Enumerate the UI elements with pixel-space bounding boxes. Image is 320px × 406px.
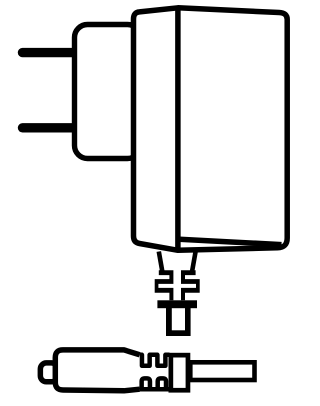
strain relief right serpentine rib [181, 270, 200, 300]
cable output barrel [190, 362, 254, 380]
strain relief left serpentine rib [155, 270, 174, 300]
DC tip of adapter (outer) [166, 304, 191, 336]
DC tip of adapter (inner white) [172, 308, 185, 330]
front face bottom edge line [180, 239, 282, 244]
plug face (AC plug head) [75, 25, 141, 159]
cable plug tip (left barrel pin) [40, 363, 57, 382]
prong 1 (upper AC blade) [23, 48, 76, 57]
cable strain relief bottom arch 2 [158, 378, 166, 389]
prong 2 (lower AC blade) [23, 123, 76, 132]
adapter body outline [134, 8, 288, 251]
strain relief flange bar [157, 300, 197, 308]
cable collar flange [171, 355, 188, 390]
cable strain relief bottom arch 1 [142, 378, 150, 389]
strain relief neck left slant [159, 252, 163, 272]
strain relief neck right slant [192, 252, 196, 272]
body edge junction line (side/front) [175, 8, 181, 251]
cable plug main body [55, 350, 139, 391]
cable strain relief bottom bar [140, 387, 170, 392]
cable strain relief top square-wave rib [140, 355, 170, 366]
